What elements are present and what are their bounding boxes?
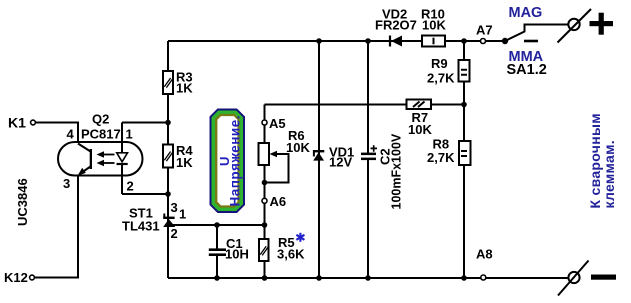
junction R6 wiper <box>262 180 268 186</box>
svg-text:K12: K12 <box>4 270 28 285</box>
plus symbol <box>590 13 614 35</box>
wire C2 column <box>367 41 369 153</box>
minus symbol <box>591 275 616 280</box>
wire top rail <box>168 40 505 42</box>
wire VD1 column <box>318 41 320 278</box>
svg-text:2: 2 <box>171 226 178 241</box>
label pin 3 tl431 <box>171 200 178 215</box>
resistor R3 <box>163 71 173 94</box>
svg-text:2,7K: 2,7K <box>427 71 455 86</box>
junction pin2 TL431 <box>165 191 171 197</box>
node K1 terminal <box>31 120 36 125</box>
resistor R10 <box>422 36 445 47</box>
svg-text:3: 3 <box>63 176 70 191</box>
connector plus output <box>558 9 592 43</box>
svg-text:10K: 10K <box>286 140 310 155</box>
junction C1 bus <box>214 275 220 281</box>
svg-text:1K: 1K <box>176 81 193 96</box>
label K1 <box>8 115 26 131</box>
svg-text:3,6K: 3,6K <box>277 247 305 262</box>
label asterisk <box>296 233 304 242</box>
label Q2 <box>92 112 109 127</box>
label R10 value <box>421 7 446 33</box>
label SA1.2 <box>507 62 547 78</box>
svg-text:UC3846: UC3846 <box>15 178 30 226</box>
label R4 value <box>176 143 193 170</box>
svg-text:1K: 1K <box>176 155 193 170</box>
transistor ST1 TL431 shunt regulator <box>163 214 175 228</box>
resistor R4 <box>163 145 173 168</box>
svg-text:PC817: PC817 <box>81 127 121 142</box>
label R7 value <box>408 110 432 137</box>
resistor R7 <box>407 100 432 110</box>
svg-text:10K: 10K <box>422 18 446 33</box>
label R3 value <box>176 70 193 96</box>
svg-text:10H: 10H <box>225 247 249 262</box>
junction VD1 top rail <box>316 38 322 44</box>
svg-text:FR2O7: FR2O7 <box>375 18 417 33</box>
svg-text:2: 2 <box>127 179 134 194</box>
diode LED in optocoupler <box>117 153 128 164</box>
svg-text:Q2: Q2 <box>92 112 109 127</box>
svg-text:3: 3 <box>171 200 178 215</box>
svg-text:12V: 12V <box>329 155 352 170</box>
junction R8 bus <box>461 275 467 281</box>
light arrows <box>97 151 115 166</box>
svg-text:1: 1 <box>179 207 186 222</box>
svg-text:A8: A8 <box>476 247 493 262</box>
wire TL431 ref rail <box>170 224 265 226</box>
svg-text:MAG: MAG <box>509 5 543 21</box>
junction R7 R8 R9 <box>461 102 467 108</box>
wire C1 column <box>216 225 218 249</box>
wire K1 to pin4 <box>36 123 79 144</box>
label K12 <box>4 270 28 285</box>
resistor R5 <box>259 239 269 261</box>
wire pin3 to K12 <box>34 176 78 278</box>
wire bottom bus <box>168 277 569 279</box>
wire C2 column lower <box>367 160 369 278</box>
label C1 value <box>225 236 249 262</box>
svg-text:A6: A6 <box>270 194 287 209</box>
svg-text:10K: 10K <box>408 122 432 137</box>
label R5 value <box>277 235 305 262</box>
wire pin1 horizontal <box>122 122 168 124</box>
switch SA1.2 <box>502 25 569 45</box>
wire mid rail (R7 feedback) <box>265 104 465 106</box>
wire R6 column <box>264 105 266 279</box>
node A8 terminal <box>481 275 486 280</box>
wire left column <box>167 41 169 278</box>
label C2 value <box>377 133 403 209</box>
capacitor C2 <box>361 145 377 160</box>
label VD1 value <box>329 145 354 170</box>
label pin 4 <box>67 127 75 142</box>
label A7 <box>476 23 493 38</box>
label pin 1 tl431 <box>179 207 186 222</box>
diode VD2 FR207 <box>389 36 402 47</box>
capacitor C1 <box>209 248 226 256</box>
svg-text:100mFx100V: 100mFx100V <box>389 133 403 209</box>
label pin 1 opto <box>126 127 133 142</box>
label A5 <box>269 116 286 131</box>
label VD2 value <box>375 7 417 33</box>
junction C2 top rail <box>365 38 371 44</box>
svg-text:R9: R9 <box>431 56 448 71</box>
node A5 terminal <box>262 120 267 125</box>
label pin 2 opto <box>127 179 134 194</box>
svg-text:TL431: TL431 <box>122 219 160 234</box>
label PC817 <box>81 127 121 142</box>
junction R5 bus <box>262 275 268 281</box>
resistor R8 <box>459 141 471 165</box>
label frame U voltage box <box>210 109 246 214</box>
wire C1 column lower <box>216 256 218 278</box>
junction R5 ref rail <box>262 222 268 228</box>
svg-text:SA1.2: SA1.2 <box>507 62 547 78</box>
label UC3846 <box>15 178 30 226</box>
node K12 terminal <box>30 275 35 280</box>
label R9 value <box>427 56 455 86</box>
svg-text:A7: A7 <box>476 23 493 38</box>
resistor R9 <box>459 60 470 82</box>
label pin 2 tl431 <box>171 226 178 241</box>
svg-text:4: 4 <box>67 127 75 142</box>
wire pin2 vertical <box>121 165 123 195</box>
svg-text:1: 1 <box>126 127 133 142</box>
junction C1 ref rail <box>214 222 220 228</box>
wire R9 R8 column <box>463 41 465 278</box>
label R6 value <box>286 128 310 155</box>
junction pin1 R3 R4 <box>165 120 171 126</box>
svg-text:Напряжение.: Напряжение. <box>228 115 243 206</box>
connector minus output <box>558 261 589 296</box>
svg-text:K1: K1 <box>8 115 26 131</box>
label R8 value <box>427 137 455 166</box>
label ST1 TL431 <box>122 206 160 234</box>
label pin 3 opto <box>63 176 70 191</box>
zener diode VD1 <box>313 150 324 161</box>
junction R9 top rail <box>461 38 467 44</box>
svg-text:A5: A5 <box>269 116 286 131</box>
junction VD1 bus <box>316 275 322 281</box>
label A6 <box>270 194 287 209</box>
transistor Q2 phototransistor <box>78 144 93 176</box>
wire pin1 vertical <box>121 123 123 154</box>
wire pin2 horizontal <box>122 193 168 195</box>
optocoupler Q2 PC817 body <box>58 142 143 176</box>
svg-text:2,7K: 2,7K <box>427 150 455 165</box>
label weld terminals note <box>587 113 617 208</box>
node A6 terminal <box>262 198 267 203</box>
label MMA <box>509 49 544 65</box>
node A7 terminal <box>481 39 486 44</box>
label A8 <box>476 247 493 262</box>
svg-text:клеммам.: клеммам. <box>601 140 617 208</box>
label MAG <box>509 5 543 21</box>
junction C2 bus <box>365 275 371 281</box>
potentiometer R6 <box>259 143 289 183</box>
